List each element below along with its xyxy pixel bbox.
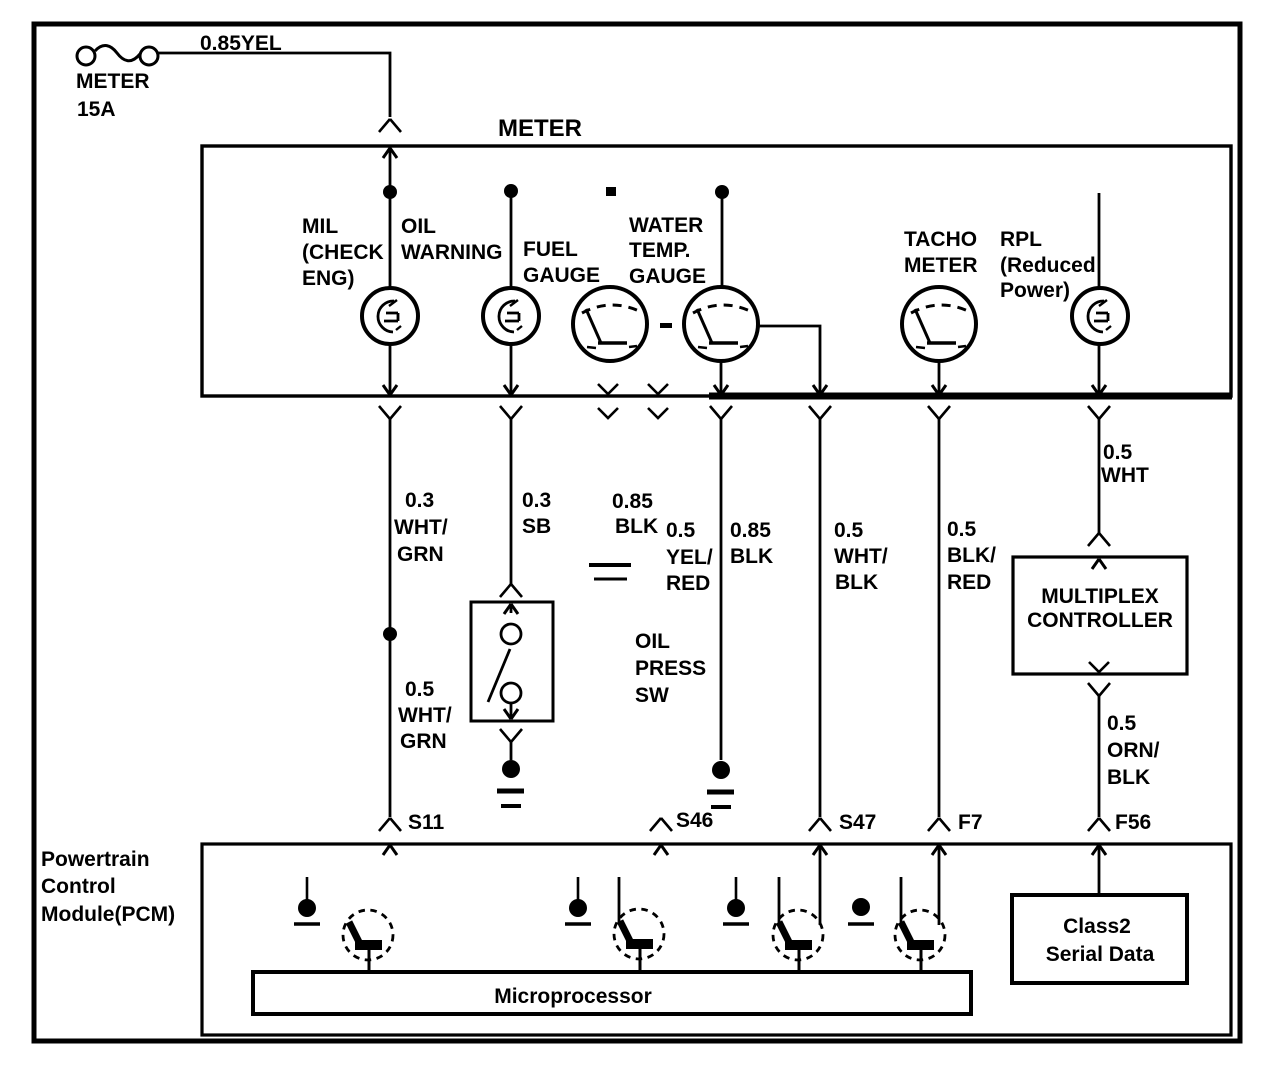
F7 arrow inside PCM with wire [932,845,946,925]
connector fork above OIL PRESS SW [500,584,522,597]
svg-text:Microprocessor: Microprocessor [494,985,652,1008]
svg-text:0.5: 0.5 [666,519,696,542]
svg-text:Control: Control [41,875,116,898]
svg-text:RED: RED [666,572,710,595]
S11 arrow inside PCM [383,845,397,855]
power dot 2 [565,877,591,924]
ground G water temp [707,761,734,807]
connector fork below MULTIPLEX [1088,683,1110,817]
svg-text:Module(PCM): Module(PCM) [41,903,175,926]
wire TACHO gauge bottom to box edge [932,361,946,395]
svg-text:BLK: BLK [1107,766,1150,789]
label 0.3 WHT/GRN [394,489,448,566]
connector fork below METER exit wire 1 [379,406,401,634]
svg-text:(Reduced: (Reduced [1000,254,1096,277]
svg-text:WARNING: WARNING [401,241,503,264]
svg-text:Power): Power) [1000,279,1070,302]
METER box [202,146,1231,396]
svg-text:WHT/: WHT/ [834,545,888,568]
svg-text:TEMP.: TEMP. [629,239,690,262]
connector F7 fork [928,818,950,831]
gauge TACHO METER [902,287,976,361]
svg-text:OIL: OIL [401,215,436,238]
transistor Q4 [895,877,945,973]
F56 arrow inside PCM with wire [1092,845,1106,895]
ground G oil press switch [497,760,524,806]
svg-text:BLK: BLK [615,515,658,538]
label 0.5 ORN/BLK [1107,712,1160,789]
stub minus side chevrons [648,384,668,418]
node dot WATER TEMP feed [715,185,729,199]
svg-text:METER: METER [904,254,978,277]
switch lever [488,649,510,702]
svg-text:WHT/: WHT/ [398,704,452,727]
MULTIPLEX CONTROLLER input fork [1088,533,1110,546]
PCM box [202,844,1231,1035]
stub FUEL sender chevrons [598,384,618,418]
wire WATER TEMP gauge top [721,192,724,289]
power dot 1 [294,877,320,924]
svg-text:ENG): ENG) [302,267,355,290]
switch contact top [501,624,521,644]
svg-text:METER: METER [76,70,150,93]
svg-text:YEL/: YEL/ [666,546,713,569]
label MIL (CHECK ENG) [302,215,384,290]
node dot MIL feed [383,185,397,199]
svg-text:(CHECK: (CHECK [302,241,384,264]
svg-text:ORN/: ORN/ [1107,739,1160,762]
label 0.5 BLK/RED [947,518,996,594]
svg-text:SW: SW [635,684,669,707]
connector fork below OIL PRESS SW [500,729,522,760]
label RPL (Reduced Power) [1000,228,1096,302]
svg-text:0.85: 0.85 [730,519,771,542]
svg-text:0.5: 0.5 [1103,441,1133,464]
svg-text:OIL: OIL [635,630,670,653]
svg-text:WHT/: WHT/ [394,516,448,539]
svg-text:FUEL: FUEL [523,238,578,261]
power dot 3 [723,877,749,924]
gauge WATER TEMP [684,287,758,361]
svg-text:TACHO: TACHO [904,228,977,251]
connector F56 fork [1088,818,1110,831]
MULTIPLEX input arrow [1092,559,1106,569]
svg-text:Serial Data: Serial Data [1046,943,1155,966]
svg-text:BLK: BLK [835,571,878,594]
MULTIPLEX CONTROLLER box [1013,557,1187,674]
MULTIPLEX output arrow [1089,662,1109,672]
S46 arrow inside PCM [654,845,668,855]
connector fork below METER exit wire 3 [710,406,732,760]
svg-text:GAUGE: GAUGE [629,265,706,288]
label WATER TEMP. GAUGE [629,214,706,288]
svg-text:SB: SB [522,515,551,538]
Microprocessor box [253,972,971,1014]
svg-text:0.5: 0.5 [405,678,435,701]
svg-text:S11: S11 [408,811,445,834]
S47 arrow inside PCM with wire [813,845,827,925]
svg-text:MULTIPLEX: MULTIPLEX [1041,585,1158,608]
svg-text:BLK: BLK [730,545,773,568]
power dot 4 [848,898,874,924]
minus terminal mark [660,323,672,328]
node dot FUEL GAUGE feed [606,187,616,196]
svg-text:0.85: 0.85 [612,490,653,513]
wire RPL lamp bottom to box edge [1092,344,1106,395]
label Powertrain Control Module(PCM) [41,848,175,926]
connector fork below METER exit wire 5 [928,406,950,817]
svg-text:F7: F7 [958,811,983,834]
connector arrow inside OIL PRESS SW top [504,604,518,614]
wire 0.85YEL from fuse to METER box [158,53,390,117]
connector arrow inside OIL PRESS SW bottom [504,703,518,719]
connector S11 fork [379,818,401,831]
svg-text:GRN: GRN [400,730,447,753]
wire MIL lamp bottom to box edge [383,344,397,395]
svg-text:0.5: 0.5 [834,519,864,542]
svg-text:RED: RED [947,571,991,594]
connector fork below METER exit wire 6 [1088,406,1110,533]
svg-text:0.85YEL: 0.85YEL [200,32,282,55]
wire MIL circuit to PCM [389,634,392,817]
lamp MIL [362,288,418,344]
wire OIL WARNING lamp top [510,191,513,289]
svg-text:15A: 15A [77,98,116,121]
connector at METER box top (female fork) [379,119,401,132]
switch contact bottom [501,683,521,703]
svg-text:GAUGE: GAUGE [523,264,600,287]
wire OIL WARNING lamp bottom to box edge [504,344,518,395]
label MULTIPLEX CONTROLLER [1027,585,1173,632]
svg-text:WATER: WATER [629,214,703,237]
label 0.5 WHT/GRN [398,678,452,753]
svg-text:0.3: 0.3 [405,489,434,512]
svg-text:S47: S47 [839,811,876,834]
label OIL PRESS SW [635,630,706,707]
label 0.85 BLK second [730,519,773,568]
svg-text:S46: S46 [676,809,713,832]
svg-text:WHT: WHT [1101,464,1149,487]
fuse METER 15A [76,45,158,121]
svg-text:PRESS: PRESS [635,657,706,680]
svg-text:Powertrain: Powertrain [41,848,150,871]
svg-text:CONTROLLER: CONTROLLER [1027,609,1173,632]
gauge FUEL [573,287,647,361]
lamp RPL [1072,288,1128,344]
label 0.5 WHT [1101,441,1149,487]
connector S46 fork [650,818,672,831]
connector fork below METER exit wire 4 [809,406,831,817]
label 0.85 BLK first [612,490,658,538]
continuation bars [589,565,631,579]
svg-text:MIL: MIL [302,215,338,238]
Class2 Serial Data box [1012,895,1187,983]
label 0.5 YEL/RED [666,519,713,595]
wire MIL lamp top [389,192,392,289]
transistor Q2 [614,877,664,972]
svg-text:Class2: Class2 [1063,915,1131,938]
lamp OIL WARNING [483,288,539,344]
label TACHO METER [904,228,978,277]
node S-dot on MIL wire [383,627,397,641]
svg-text:0.5: 0.5 [1107,712,1137,735]
label OIL WARNING [401,215,503,264]
svg-text:0.5: 0.5 [947,518,977,541]
svg-text:F56: F56 [1115,811,1151,834]
svg-text:BLK/: BLK/ [947,544,996,567]
transistor Q3 [773,877,823,973]
wire RPL lamp top [1098,193,1101,289]
label 0.5 WHT/BLK [834,519,888,594]
svg-text:GRN: GRN [397,543,444,566]
wire WATER TEMP gauge bottom to box edge [714,361,728,395]
METER box bottom thick segment [709,393,1232,400]
svg-text:METER: METER [498,115,582,142]
label 0.3 SB [522,489,551,538]
connector fork below METER exit wire 2 [500,406,522,584]
connector S47 fork [809,818,831,831]
label Class2 Serial Data [1046,915,1155,966]
svg-text:0.3: 0.3 [522,489,551,512]
svg-text:RPL: RPL [1000,228,1042,251]
label FUEL GAUGE [523,238,600,287]
OIL PRESS SW box [471,602,553,721]
node dot OIL WARNING feed [504,184,518,198]
wire WATER TEMP right side to second exit [758,326,827,395]
connector at METER box top (male arrow) [383,147,397,192]
transistor Q1 [343,910,393,973]
